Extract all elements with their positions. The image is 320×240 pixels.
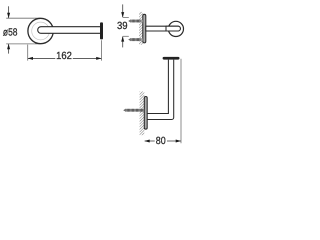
dim 80 line right segment with right arrow bbox=[167, 140, 181, 142]
extension line right bbox=[180, 59, 182, 144]
wall hatch bbox=[139, 12, 143, 45]
dim ø58 vertical line bottom segment with up arrow bbox=[8, 44, 10, 53]
rod + arm (white interior) bbox=[147, 60, 173, 120]
svg-text:162: 162 bbox=[56, 51, 72, 62]
screw top bbox=[128, 20, 143, 23]
bar end cap bbox=[100, 22, 103, 39]
wall plate bbox=[144, 97, 147, 130]
wall flange plate bbox=[143, 14, 146, 43]
svg-text:80: 80 bbox=[156, 136, 166, 147]
dim 162 line right segment with right arrow bbox=[73, 57, 101, 59]
bar (front view, rounded left cap) bbox=[38, 27, 101, 34]
top cap bbox=[163, 57, 180, 60]
dim 39 vertical line bottom segment with up arrow bbox=[122, 37, 124, 48]
dim 39 vertical line top segment with down arrow bbox=[122, 4, 124, 17]
svg-text:39: 39 bbox=[117, 21, 128, 32]
flange inner circle bbox=[32, 22, 50, 40]
wall hatch bbox=[140, 92, 145, 136]
bar (side view) bbox=[146, 26, 181, 31]
dim 162 line left segment with left arrow bbox=[28, 57, 55, 59]
screw bottom bbox=[128, 38, 143, 41]
dim 162 right extension line bbox=[101, 40, 103, 60]
end disc ring bbox=[168, 21, 183, 36]
dim ø58 bottom extension line bbox=[6, 43, 40, 45]
dim 80 line left segment with left arrow bbox=[145, 140, 155, 142]
dim 39 bottom extension tick bbox=[123, 35, 129, 37]
flange outer circle bbox=[28, 18, 53, 43]
dim 39 label bbox=[117, 21, 128, 30]
dim 39 top extension tick bbox=[123, 16, 129, 18]
dim ø58 top extension line bbox=[6, 17, 40, 19]
screw bbox=[123, 109, 144, 112]
svg-text:ø58: ø58 bbox=[3, 28, 18, 39]
bar slot redrawn over ring bbox=[166, 26, 180, 31]
dim ø58 vertical line top segment with down arrow bbox=[8, 6, 10, 17]
dim 162 left extension line bbox=[27, 45, 29, 61]
